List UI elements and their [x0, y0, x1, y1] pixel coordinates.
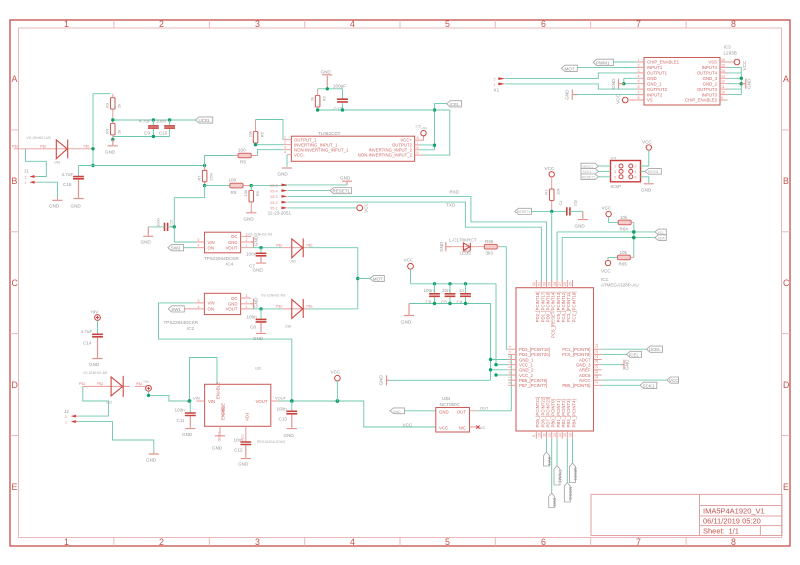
svg-text:VOUT: VOUT — [226, 307, 238, 312]
ground below R4 — [108, 140, 118, 146]
svg-text:VCC: VCC — [439, 426, 448, 431]
svg-text:MOSI1: MOSI1 — [648, 170, 659, 174]
wire PB3 to MOSI1 — [566, 439, 568, 483]
wire LED to MCU PD3 — [497, 246, 500, 248]
svg-text:25m: 25m — [208, 172, 213, 180]
svg-text:U$4: U$4 — [442, 396, 451, 401]
resistor R66 — [484, 244, 497, 249]
svg-text:100n: 100n — [246, 252, 257, 257]
IC3 right pin stubs — [720, 62, 728, 100]
svg-text:RESET1: RESET1 — [333, 189, 351, 194]
svg-text:1: 1 — [494, 83, 496, 87]
IC4 TPS22944DCKR box — [205, 232, 241, 253]
wire ICSP pin3 — [599, 170, 611, 172]
svg-text:22: 22 — [595, 354, 599, 358]
svg-text:P$1: P$1 — [307, 243, 313, 247]
svg-text:ATMEGA328P-AU: ATMEGA328P-AU — [601, 283, 639, 288]
svg-text:PB4_[PCINT4]: PB4_[PCINT4] — [571, 399, 576, 427]
svg-text:2: 2 — [25, 175, 27, 179]
svg-text:P$2: P$2 — [12, 145, 18, 149]
svg-text:SDA: SDA — [658, 237, 666, 241]
svg-text:3: 3 — [508, 356, 512, 358]
IC U$4 NCT050C box — [436, 408, 470, 433]
svg-text:B: B — [12, 176, 18, 186]
capacitor C6 — [434, 284, 436, 304]
svg-text:27: 27 — [558, 282, 562, 286]
wire PB4 to MISO1 — [572, 439, 574, 463]
ground IC4 pin2 — [251, 237, 254, 247]
svg-text:VCC: VCC — [601, 269, 611, 274]
svg-text:22-23-2051: 22-23-2051 — [268, 211, 292, 216]
svg-text:X5-3: X5-3 — [270, 195, 278, 199]
svg-text:U$2: U$2 — [255, 367, 261, 371]
svg-text:C8: C8 — [250, 325, 256, 330]
svg-text:U$5: U$5 — [290, 260, 296, 264]
svg-text:C13: C13 — [279, 417, 288, 422]
svg-text:10k: 10k — [620, 215, 628, 220]
svg-text:2: 2 — [508, 351, 512, 353]
svg-text:2k: 2k — [310, 97, 315, 101]
ground ICSP — [641, 177, 649, 183]
tag SCL — [655, 229, 667, 235]
svg-text:PB5_[PCINT5]: PB5_[PCINT5] — [562, 383, 590, 388]
svg-text:ADJ: ADJ — [245, 413, 250, 421]
svg-text:19: 19 — [595, 370, 599, 374]
node diode output — [91, 147, 94, 150]
svg-text:4.7uF: 4.7uF — [62, 172, 74, 177]
svg-text:SW2: SW2 — [552, 498, 557, 508]
svg-text:GND: GND — [278, 172, 289, 177]
tag SW1 — [168, 306, 184, 312]
svg-text:18: 18 — [595, 375, 599, 379]
svg-text:X5-4: X5-4 — [270, 190, 278, 194]
svg-text:7: 7 — [417, 141, 419, 145]
capacitor C10 — [169, 120, 171, 137]
svg-text:SCK1: SCK1 — [643, 383, 655, 388]
svg-text:GND: GND — [575, 224, 586, 229]
svg-text:12: 12 — [721, 80, 725, 84]
svg-text:2k: 2k — [117, 130, 122, 134]
diode U$3 — [14, 148, 93, 150]
svg-text:2: 2 — [159, 19, 164, 29]
svg-text:GND: GND — [340, 176, 351, 181]
svg-text:GND_2: GND_2 — [703, 81, 718, 86]
svg-text:1: 1 — [246, 305, 248, 309]
wire rail up to R5 row — [205, 156, 238, 166]
diode U$6 — [282, 308, 308, 310]
svg-text:OUTPUT3: OUTPUT3 — [697, 87, 718, 92]
svg-text:5: 5 — [198, 299, 200, 303]
tag VCC (MCU) — [667, 377, 679, 383]
ground LED2 — [446, 242, 452, 251]
svg-text:C16: C16 — [63, 182, 72, 187]
svg-text:TL082CDT: TL082CDT — [318, 131, 341, 136]
svg-text:4: 4 — [350, 537, 355, 547]
wire R7 to C15 branch — [174, 186, 204, 227]
tag RESET1 (X5) — [330, 188, 351, 194]
svg-text:VCC: VCC — [615, 93, 620, 103]
tag MOT (upper) — [561, 65, 577, 71]
wire MCU VCC_2 — [496, 374, 508, 376]
frame column ticks bottom — [114, 538, 686, 547]
tag RESET2 — [581, 174, 599, 180]
ground J1 — [52, 198, 62, 201]
svg-text:R5: R5 — [240, 160, 246, 165]
svg-text:16: 16 — [721, 58, 725, 62]
svg-text:10: 10 — [537, 433, 541, 437]
svg-text:C12: C12 — [234, 447, 243, 452]
svg-text:GND: GND — [244, 217, 255, 222]
svg-text:C14: C14 — [83, 341, 92, 346]
svg-text:MOT: MOT — [565, 66, 575, 71]
svg-text:10: 10 — [721, 91, 725, 95]
svg-text:1/1: 1/1 — [729, 526, 739, 535]
wire X1-1 to L293B OUTPUT2 — [505, 84, 636, 89]
svg-text:A: A — [12, 74, 18, 84]
wire REG104 enable loop — [190, 358, 218, 402]
svg-text:GND: GND — [439, 241, 444, 252]
svg-text:VCC: VCC — [404, 258, 414, 263]
svg-text:8: 8 — [508, 382, 512, 384]
svg-text:TPS22944DCKR: TPS22944DCKR — [204, 256, 239, 261]
svg-text:VCC: VCC — [545, 166, 555, 171]
svg-text:3: 3 — [246, 294, 248, 298]
svg-text:1: 1 — [246, 244, 248, 248]
diode U$5 — [282, 247, 308, 249]
ground R9 — [246, 210, 256, 213]
wire UCEL net — [113, 118, 196, 120]
diode U$1 — [83, 385, 146, 387]
svg-text:2: 2 — [246, 238, 248, 242]
svg-text:7: 7 — [636, 19, 641, 29]
svg-text:L-C170KRCT: L-C170KRCT — [449, 238, 477, 243]
supply VCC R65 — [608, 257, 617, 260]
svg-text:VCC-: VCC- — [294, 152, 305, 157]
wire R6 bottom to inverting input — [256, 144, 284, 146]
svg-text:GND: GND — [379, 375, 384, 386]
svg-text:R7: R7 — [197, 175, 202, 181]
svg-text:Sheet:: Sheet: — [703, 526, 725, 535]
wire IC4 VOUT — [251, 247, 282, 249]
supply VCC IC3 VSS — [728, 61, 735, 63]
svg-text:4: 4 — [284, 151, 286, 155]
svg-text:10n: 10n — [234, 438, 242, 443]
svg-text:2k: 2k — [117, 104, 122, 108]
tag MOSI1 (MCU) — [564, 483, 570, 503]
svg-text:RESET1: RESET1 — [582, 176, 595, 180]
svg-text:GND: GND — [89, 362, 100, 367]
svg-text:PB0_[PCINT0]: PB0_[PCINT0] — [551, 399, 556, 427]
ground caps rail — [404, 304, 414, 316]
svg-text:2: 2 — [65, 415, 67, 419]
tag SW1 (MCU) — [544, 452, 550, 466]
wire noninv2 loop — [423, 110, 450, 155]
resistor R9 — [249, 191, 254, 203]
svg-text:4: 4 — [198, 244, 200, 248]
svg-text:ENABLE: ENABLE — [216, 382, 221, 399]
svg-text:4.7uF: 4.7uF — [139, 119, 151, 124]
wire R2/C17 bottom rail to opamp2 — [318, 109, 435, 111]
svg-text:3: 3 — [255, 19, 260, 29]
wire R8 row — [205, 185, 230, 187]
wire SCL — [557, 232, 655, 283]
capacitor C15 — [165, 223, 168, 231]
wire MCU GND_1 — [491, 359, 508, 361]
svg-text:D: D — [12, 380, 18, 390]
svg-text:6: 6 — [638, 85, 640, 89]
svg-text:VCC: VCC — [403, 423, 413, 428]
svg-text:GND: GND — [254, 235, 259, 246]
svg-text:11: 11 — [542, 433, 546, 437]
svg-text:GND: GND — [439, 409, 449, 414]
svg-text:ON: ON — [208, 307, 214, 312]
IC4 pins — [197, 236, 252, 247]
tag SCK2 — [581, 169, 599, 175]
node R9 top — [250, 184, 253, 187]
svg-text:1: 1 — [638, 58, 640, 62]
svg-text:ICEL: ICEL — [450, 102, 461, 107]
capacitor C17 — [342, 89, 344, 110]
svg-text:7: 7 — [508, 377, 512, 379]
svg-text:TPS22944DCKR: TPS22944DCKR — [164, 320, 199, 325]
svg-text:X5-5: X5-5 — [270, 184, 278, 188]
wire MOT tag branch — [358, 278, 370, 280]
header JP4 pin circles — [619, 164, 623, 168]
svg-text:GND: GND — [146, 458, 157, 463]
wire VCC caps top rail — [411, 269, 497, 365]
wire vertical battery node — [92, 94, 94, 166]
svg-text:22n: 22n — [442, 288, 450, 293]
wire PB0 to SW2 — [551, 439, 553, 493]
svg-text:OUTPUT4: OUTPUT4 — [697, 71, 718, 76]
svg-text:P$1: P$1 — [84, 145, 90, 149]
ground op-amp VCC- — [286, 155, 288, 167]
svg-text:R1: R1 — [543, 189, 548, 195]
svg-text:26: 26 — [563, 282, 567, 286]
wire PB1 to PWM1 — [556, 439, 558, 466]
svg-text:VOUT: VOUT — [226, 246, 238, 251]
svg-text:P$2: P$2 — [97, 382, 103, 386]
svg-text:4.7uF: 4.7uF — [81, 329, 93, 334]
svg-text:10k: 10k — [243, 190, 248, 196]
svg-text:X5-2: X5-2 — [270, 201, 278, 205]
svg-text:INPUT3: INPUT3 — [702, 92, 718, 97]
svg-text:VOUT: VOUT — [275, 396, 287, 401]
svg-text:INPUT1: INPUT1 — [647, 65, 663, 70]
node C9 bottom — [152, 135, 155, 138]
node C15 right — [173, 225, 176, 228]
resistor R65 — [617, 255, 630, 260]
svg-text:GND: GND — [611, 78, 616, 89]
svg-text:3: 3 — [284, 146, 286, 150]
svg-text:GND: GND — [141, 240, 152, 245]
svg-text:10k: 10k — [555, 188, 560, 194]
svg-text:GND: GND — [253, 336, 264, 341]
svg-text:OC: OC — [231, 296, 237, 301]
svg-text:SW1: SW1 — [171, 307, 181, 312]
wire AVCC to VCC tag — [602, 379, 667, 381]
svg-text:5: 5 — [508, 366, 512, 368]
svg-text:J2: J2 — [64, 409, 69, 414]
capacitor C7 — [260, 248, 262, 253]
svg-text:R4: R4 — [105, 128, 110, 134]
svg-text:R65: R65 — [619, 262, 628, 267]
svg-text:1: 1 — [508, 346, 512, 348]
svg-text:MISO1: MISO1 — [573, 468, 578, 482]
tag GND1 to U$4 — [390, 408, 405, 414]
svg-text:6: 6 — [635, 176, 637, 180]
op-amp left pins — [284, 140, 292, 155]
svg-text:R66: R66 — [485, 239, 494, 244]
svg-text:IC4: IC4 — [226, 261, 234, 266]
wire gnd rail to gnd symbol — [390, 379, 491, 381]
svg-text:1: 1 — [614, 165, 616, 169]
IC1 left pin stubs — [508, 349, 516, 385]
svg-text:GND: GND — [212, 446, 223, 451]
svg-text:100n: 100n — [156, 119, 167, 124]
svg-text:100pF: 100pF — [333, 84, 346, 89]
svg-text:REG104GA-SOK5: REG104GA-SOK5 — [257, 440, 285, 444]
svg-text:2: 2 — [635, 165, 637, 169]
svg-text:NON-INVERTING_INPUT_2: NON-INVERTING_INPUT_2 — [358, 152, 413, 157]
svg-text:C10: C10 — [159, 130, 168, 135]
svg-text:P$2: P$2 — [276, 243, 282, 247]
svg-text:5: 5 — [638, 80, 640, 84]
wire +9V to REG104 VIN — [149, 391, 190, 401]
svg-text:GND: GND — [221, 406, 226, 416]
wire PD7 to SW1 — [546, 439, 548, 452]
wire U$6 to MOT vertical — [308, 308, 358, 310]
IC1 ATMEGA328P-AU box — [516, 288, 594, 431]
svg-text:11: 11 — [721, 85, 725, 89]
wire R5 to opamp pin3 — [258, 150, 284, 156]
svg-text:LED2: LED2 — [460, 251, 472, 256]
svg-text:INPUT4: INPUT4 — [702, 65, 718, 70]
IC2 pins — [184, 298, 251, 309]
node battery rail — [91, 164, 94, 167]
wire reset net — [531, 210, 566, 212]
svg-text:GND: GND — [565, 89, 570, 100]
svg-text:6: 6 — [541, 537, 546, 547]
tag MISO1 (MCU) — [570, 463, 576, 483]
svg-text:OC: OC — [231, 234, 237, 239]
title block divider — [700, 494, 783, 535]
svg-text:OUT: OUT — [457, 409, 466, 414]
svg-text:GND: GND — [254, 297, 259, 308]
svg-text:NCT050C: NCT050C — [440, 402, 461, 407]
capacitor C8 — [260, 309, 262, 319]
svg-text:GND: GND — [393, 410, 401, 414]
svg-text:9: 9 — [721, 96, 723, 100]
svg-text:OUTPUT1: OUTPUT1 — [647, 71, 668, 76]
svg-text:GND: GND — [624, 359, 629, 370]
node R7 bottom — [203, 184, 206, 187]
IC1 right pin stubs — [594, 349, 602, 385]
svg-text:JP4: JP4 — [611, 156, 617, 160]
wire U$5 to MOT net — [308, 248, 358, 309]
svg-text:IMA5P4A1920_V1: IMA5P4A1920_V1 — [703, 507, 765, 516]
svg-text:PB7_[PCINT7]: PB7_[PCINT7] — [519, 383, 547, 388]
svg-text:13: 13 — [721, 74, 725, 78]
svg-text:R2: R2 — [321, 95, 326, 101]
svg-text:VCC: VCC — [363, 202, 368, 212]
svg-text:SCL: SCL — [658, 231, 665, 235]
supply +9V op-amp pin8 — [420, 136, 424, 140]
node rail to R7 — [203, 164, 206, 167]
svg-text:06/11/2019 05:20: 06/11/2019 05:20 — [703, 517, 761, 526]
capacitor C11 — [189, 401, 191, 413]
svg-text:8: 8 — [731, 19, 736, 29]
svg-text:A: A — [783, 74, 789, 84]
svg-text:VCC: VCC — [602, 206, 612, 211]
ground J2 — [149, 452, 159, 454]
svg-text:24: 24 — [595, 344, 599, 348]
svg-text:8: 8 — [731, 537, 736, 547]
IC3 left pin stubs — [637, 62, 645, 100]
svg-text:15: 15 — [721, 63, 725, 67]
svg-text:2: 2 — [159, 537, 164, 547]
tag RESET1 (net) — [515, 208, 532, 214]
svg-text:VS-1ENH01-M3: VS-1ENH01-M3 — [27, 136, 51, 140]
node C10 top — [168, 118, 171, 121]
svg-text:8: 8 — [638, 96, 640, 100]
ground C1 — [578, 211, 588, 219]
U$2 pin VOUT — [271, 400, 279, 402]
svg-text:GND: GND — [641, 188, 652, 193]
svg-text:1: 1 — [25, 181, 27, 185]
ground IC3 right — [741, 79, 746, 89]
wire PB5 to SCK1 — [602, 384, 640, 386]
svg-text:4: 4 — [350, 19, 355, 29]
svg-text:OUTPUT2: OUTPUT2 — [647, 87, 668, 92]
svg-text:VSS: VSS — [708, 60, 717, 65]
svg-text:U$3: U$3 — [54, 161, 60, 165]
svg-text:GND: GND — [401, 320, 412, 325]
supply VCC IC3 VS — [622, 97, 628, 103]
frame row ticks left — [10, 130, 19, 436]
svg-text:+9V: +9V — [90, 310, 99, 315]
wire anode to J1 pin2 — [26, 149, 47, 177]
ground IC3 pins 4,5 — [624, 78, 637, 83]
svg-text:R6: R6 — [259, 131, 264, 137]
svg-text:25: 25 — [568, 282, 572, 286]
tag PWM1 — [593, 59, 613, 65]
resistor R1 — [551, 177, 553, 211]
wire IC2 VIN from VCC — [159, 303, 292, 401]
tag SW2 (MCU) — [549, 493, 555, 508]
svg-text:VIN: VIN — [208, 399, 215, 404]
svg-text:N/C: N/C — [459, 426, 466, 431]
svg-text:PC6_[RESET/PCINT14]: PC6_[RESET/PCINT14] — [551, 292, 556, 338]
svg-text:SW2: SW2 — [171, 246, 181, 251]
svg-text:5: 5 — [198, 238, 200, 242]
svg-text:30: 30 — [542, 282, 546, 286]
svg-text:GND: GND — [238, 462, 249, 467]
svg-text:INPUT2: INPUT2 — [647, 92, 663, 97]
tag ICEL (MCU) — [627, 351, 642, 357]
svg-text:C15: C15 — [168, 219, 173, 227]
wire PWM1 to pin1 — [613, 61, 636, 63]
svg-text:2: 2 — [284, 141, 286, 145]
svg-text:3k3: 3k3 — [486, 251, 494, 256]
svg-text:GND: GND — [49, 204, 60, 209]
wire battery rail top to R3 — [93, 93, 111, 95]
svg-text:4: 4 — [198, 305, 200, 309]
ground IC2 pin2 — [251, 299, 254, 309]
svg-text:31: 31 — [537, 282, 541, 286]
wire U$4 OUT to MCU — [477, 354, 511, 410]
svg-text:1: 1 — [64, 537, 69, 547]
